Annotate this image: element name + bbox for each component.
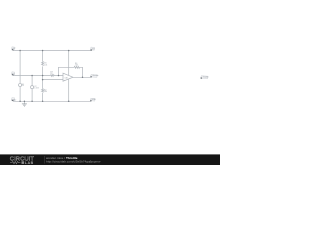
svg-text:1.65V: 1.65V [34, 87, 39, 89]
svg-text:10k: 10k [44, 91, 47, 93]
svg-text:10k: 10k [44, 64, 47, 66]
svg-text:GND: GND [92, 99, 97, 101]
svg-text:1k: 1k [50, 73, 52, 75]
svg-text:http://circuitlab.com/c/5e5b74: http://circuitlab.com/c/5e5b74gq6pqznw [46, 160, 101, 164]
svg-text:throttle: throttle [93, 74, 99, 77]
svg-text:10k: 10k [75, 64, 78, 66]
svg-text:LAB: LAB [25, 161, 34, 165]
svg-text:+5V: +5V [91, 48, 95, 50]
svg-text:throttle: throttle [203, 75, 209, 78]
svg-text:OA1: OA1 [64, 76, 68, 79]
svg-text:GND: GND [11, 99, 16, 101]
svg-text:+: + [64, 80, 65, 82]
svg-text:−: − [64, 76, 65, 78]
svg-text:+5V: +5V [12, 48, 16, 50]
